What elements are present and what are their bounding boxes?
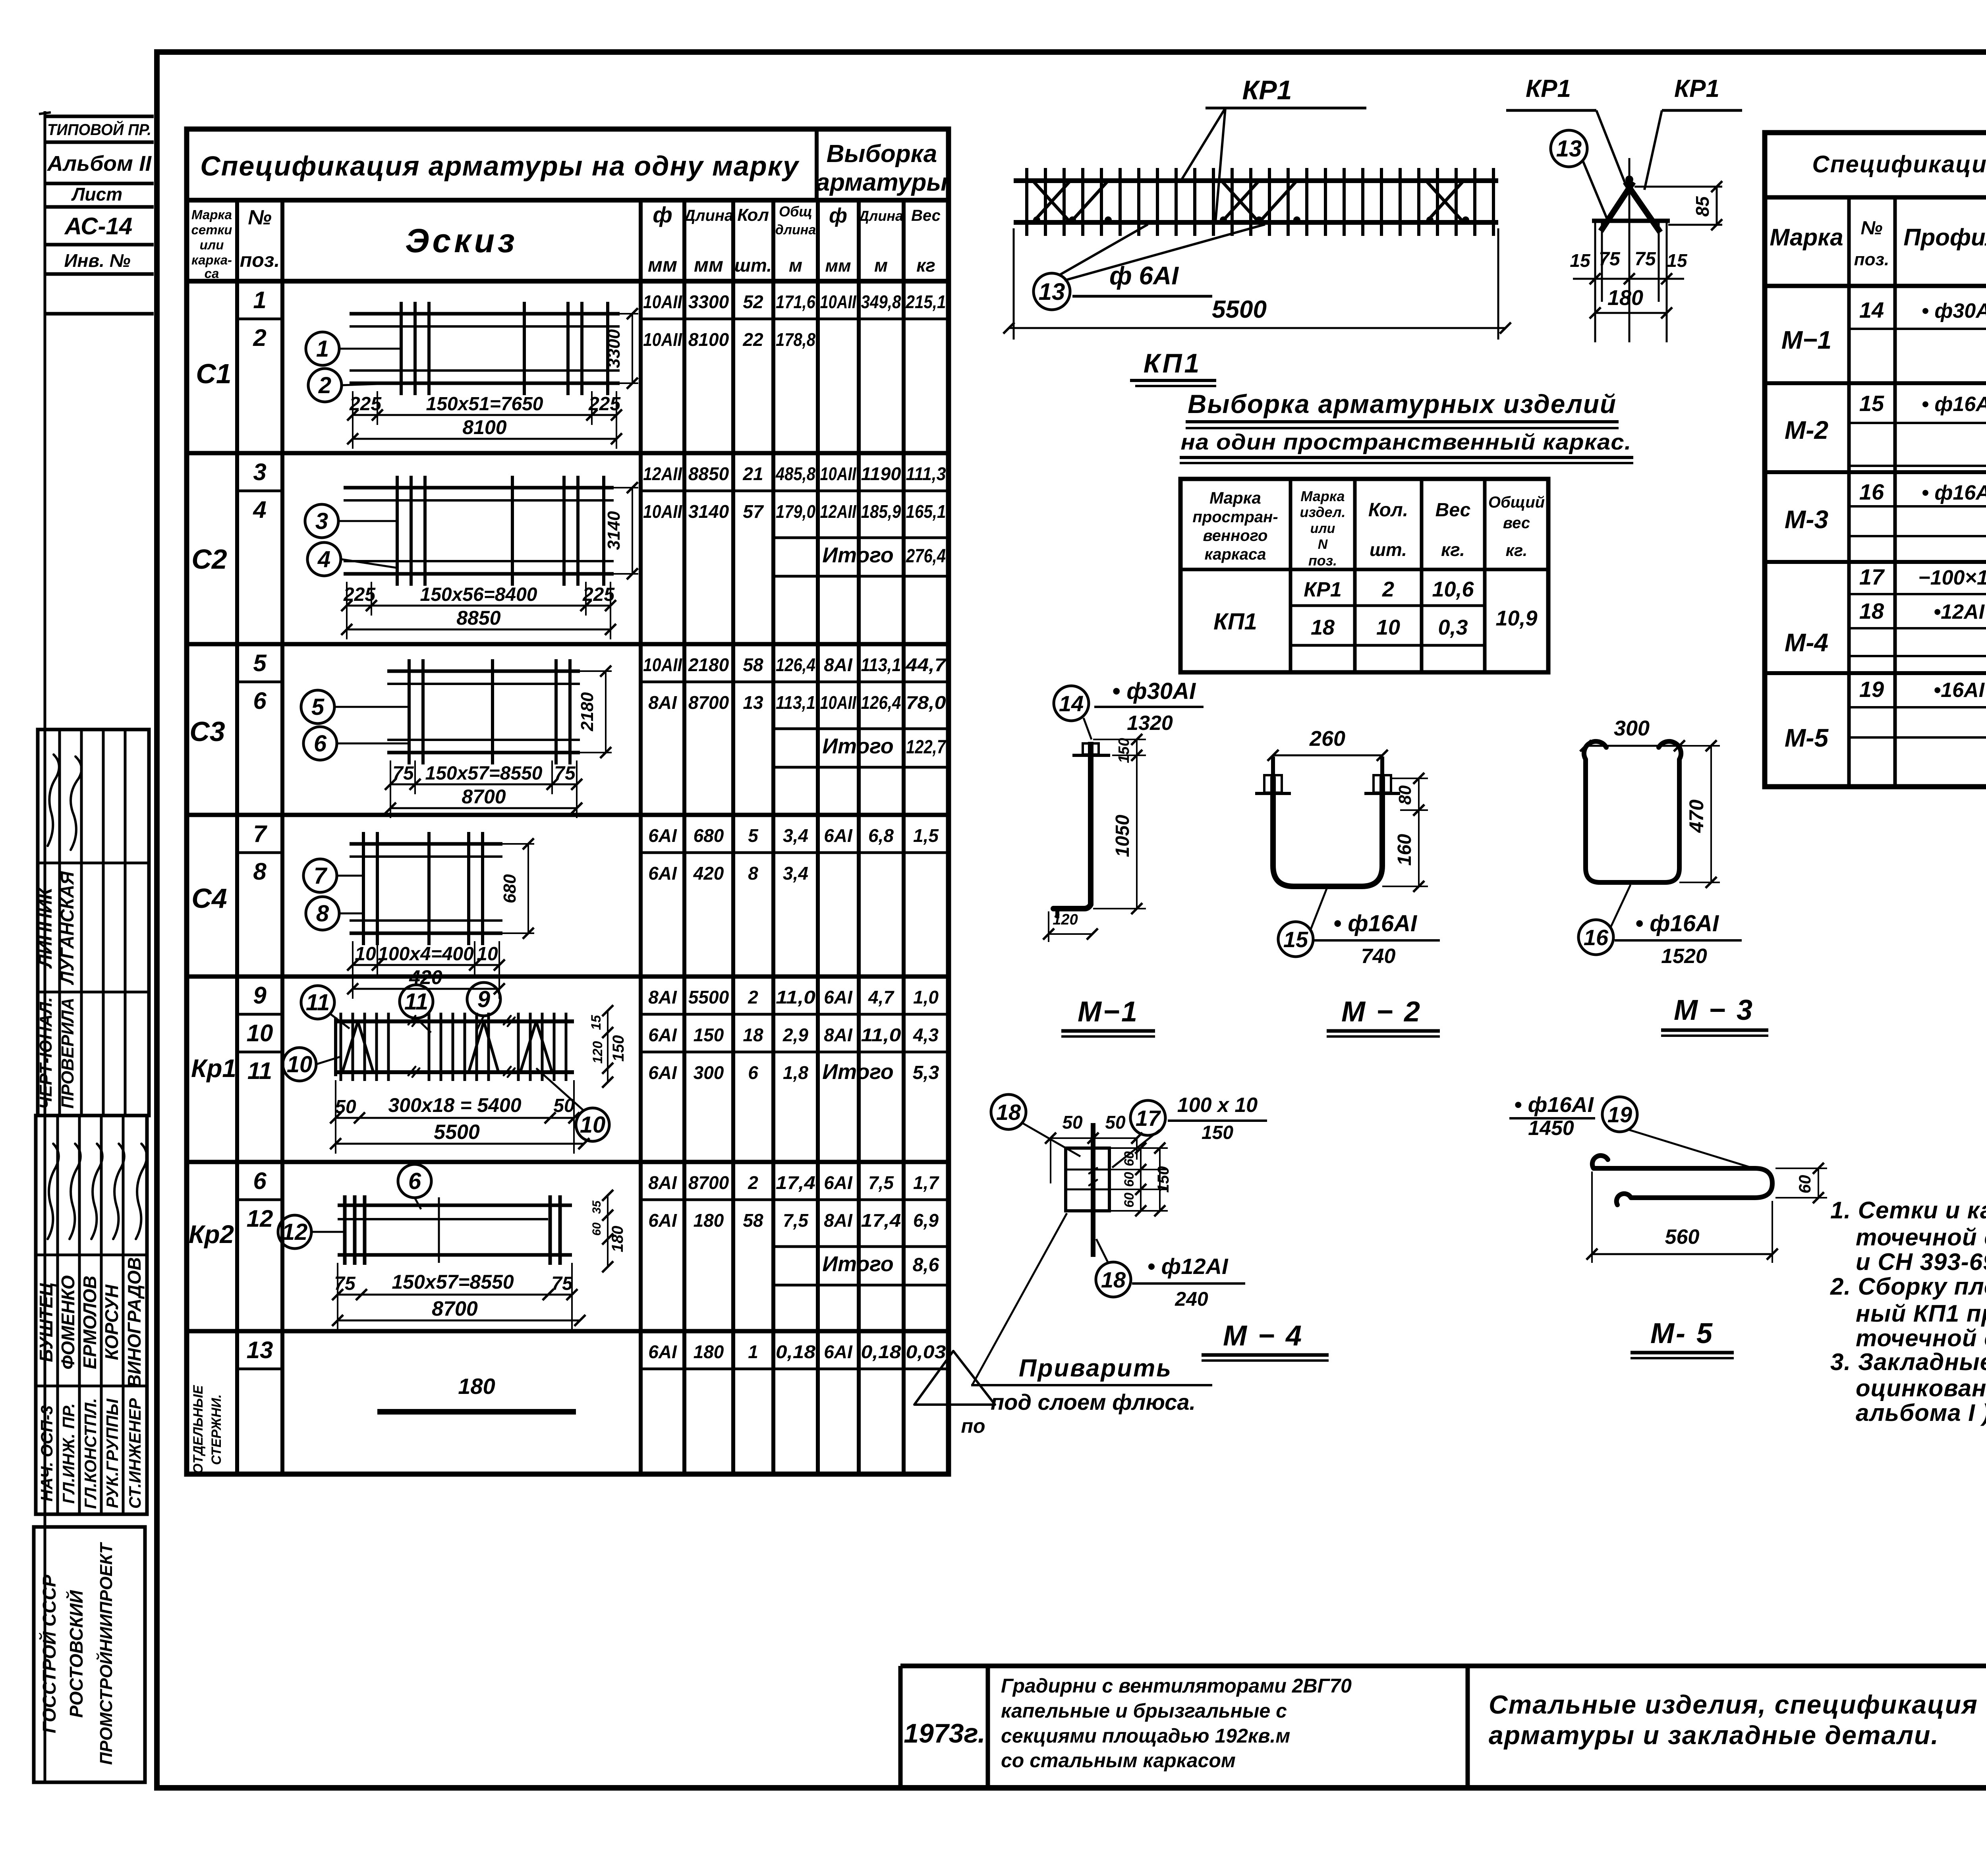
- svg-text:Марка: Марка: [1209, 488, 1261, 507]
- svg-text:Длина: Длина: [858, 208, 903, 224]
- svg-text:740: 740: [1361, 945, 1396, 968]
- svg-text:16: 16: [1859, 479, 1884, 504]
- svg-text:0,3: 0,3: [1438, 616, 1468, 639]
- svg-text:М−1: М−1: [1781, 326, 1831, 354]
- svg-text:Марка: Марка: [191, 207, 232, 222]
- svg-text:№: №: [1860, 218, 1882, 239]
- svg-text:7,5: 7,5: [783, 1210, 809, 1231]
- svg-text:2180: 2180: [578, 692, 597, 731]
- svg-text:50: 50: [553, 1095, 575, 1116]
- svg-text:150: 150: [1116, 738, 1132, 763]
- svg-text:ф: ф: [829, 204, 847, 227]
- svg-text:5: 5: [311, 694, 325, 720]
- svg-text:КОРСУН: КОРСУН: [101, 1284, 122, 1360]
- svg-text:150: 150: [694, 1025, 724, 1045]
- svg-text:180: 180: [1607, 286, 1643, 310]
- svg-text:8АI: 8АI: [824, 1025, 853, 1045]
- svg-text:8,6: 8,6: [913, 1255, 939, 1276]
- svg-text:6АI: 6АI: [648, 863, 677, 884]
- svg-text:•12АI: •12АI: [1934, 600, 1985, 623]
- svg-text:75: 75: [554, 763, 576, 784]
- svg-text:ф: ф: [653, 202, 672, 227]
- svg-text:16: 16: [1584, 925, 1609, 950]
- svg-text:150х56=8400: 150х56=8400: [420, 584, 537, 605]
- svg-text:Градирни с вентиляторами 2ВГ70: Градирни с вентиляторами 2ВГ70: [1001, 1675, 1352, 1697]
- svg-text:• ф30АI: • ф30АI: [1112, 678, 1196, 704]
- svg-text:5500: 5500: [1212, 296, 1267, 323]
- svg-text:8850: 8850: [456, 607, 500, 629]
- svg-text:поз.: поз.: [240, 249, 280, 271]
- svg-text:4,3: 4,3: [913, 1025, 939, 1045]
- svg-text:15: 15: [1667, 250, 1688, 271]
- svg-text:485,8: 485,8: [775, 463, 815, 484]
- svg-text:ПРОВЕРИЛА: ПРОВЕРИЛА: [58, 998, 77, 1108]
- svg-text:420: 420: [693, 863, 724, 884]
- svg-text:75: 75: [1599, 249, 1621, 270]
- svg-text:Выборка арматурных изделий: Выборка арматурных изделий: [1188, 389, 1617, 419]
- svg-text:8700: 8700: [462, 786, 506, 808]
- svg-text:180: 180: [694, 1210, 724, 1231]
- svg-text:6: 6: [253, 1168, 267, 1194]
- svg-text:7,5: 7,5: [868, 1172, 894, 1193]
- svg-text:1190: 1190: [861, 463, 901, 484]
- svg-text:10: 10: [287, 1052, 313, 1077]
- svg-text:6: 6: [748, 1062, 758, 1083]
- svg-text:на один пространственный ка: на один пространственный каркас.: [1181, 429, 1632, 454]
- svg-text:6АI: 6АI: [824, 825, 853, 846]
- svg-text:680: 680: [694, 825, 724, 846]
- svg-text:м: м: [789, 255, 802, 276]
- svg-text:М-2: М-2: [1785, 416, 1828, 444]
- svg-text:4,7: 4,7: [868, 987, 894, 1007]
- svg-text:М − 2: М − 2: [1341, 996, 1422, 1028]
- svg-text:КР1: КР1: [1304, 578, 1342, 601]
- svg-text:215,1: 215,1: [906, 291, 946, 312]
- svg-text:С1: С1: [196, 358, 231, 389]
- svg-text:ЕРМОЛОВ: ЕРМОЛОВ: [79, 1276, 100, 1369]
- svg-text:N: N: [1318, 537, 1328, 552]
- svg-text:КП1: КП1: [1144, 348, 1202, 378]
- svg-text:3300: 3300: [688, 291, 729, 312]
- svg-text:10АII: 10АII: [643, 501, 682, 522]
- svg-text:арматуры и закладные детал: арматуры и закладные детали.: [1489, 1720, 1939, 1750]
- svg-text:ГОССТРОЙ СССР: ГОССТРОЙ СССР: [39, 1575, 60, 1733]
- svg-text:простран-: простран-: [1192, 508, 1278, 526]
- svg-text:10АII: 10АII: [820, 291, 857, 312]
- svg-text:6: 6: [408, 1168, 421, 1194]
- svg-text:или: или: [200, 237, 224, 252]
- svg-text:0,18: 0,18: [861, 1341, 901, 1362]
- svg-text:60: 60: [1122, 1172, 1137, 1187]
- svg-text:5500: 5500: [434, 1121, 480, 1144]
- svg-text:−100×10: −100×10: [1918, 566, 1986, 589]
- svg-text:8700: 8700: [688, 1172, 729, 1193]
- svg-text:12АII: 12АII: [643, 463, 682, 484]
- svg-text:10АII: 10АII: [643, 654, 682, 675]
- svg-text:Марка: Марка: [1300, 488, 1345, 504]
- svg-text:СТЕРЖНИ.: СТЕРЖНИ.: [209, 1394, 224, 1465]
- svg-text:длина: длина: [775, 222, 816, 237]
- svg-text:капельные и брызгальные с: капельные и брызгальные с: [1001, 1700, 1287, 1722]
- svg-text:10: 10: [247, 1020, 273, 1046]
- svg-text:2: 2: [748, 987, 758, 1007]
- svg-text:Инв. №: Инв. №: [64, 250, 131, 271]
- svg-text:14: 14: [1059, 691, 1084, 716]
- svg-text:шт.: шт.: [1370, 539, 1407, 560]
- svg-text:300: 300: [1614, 716, 1650, 740]
- svg-text:165,1: 165,1: [906, 501, 946, 522]
- svg-text:8700: 8700: [688, 692, 729, 713]
- svg-text:1450: 1450: [1528, 1117, 1574, 1140]
- svg-text:С4: С4: [191, 883, 227, 914]
- svg-text:18: 18: [996, 1100, 1021, 1125]
- svg-text:Итого: Итого: [822, 1252, 894, 1276]
- svg-text:НАЧ. ОСП-3: НАЧ. ОСП-3: [37, 1405, 56, 1502]
- svg-text:Приварить: Приварить: [1019, 1355, 1172, 1382]
- svg-text:4: 4: [253, 496, 266, 523]
- svg-text:78,0: 78,0: [906, 692, 946, 713]
- svg-text:6АI: 6АI: [648, 825, 677, 846]
- svg-text:м: м: [874, 255, 888, 276]
- svg-text:2: 2: [1382, 577, 1394, 601]
- svg-text:5500: 5500: [688, 987, 729, 1007]
- svg-text:7: 7: [253, 820, 267, 847]
- svg-text:6АI: 6АI: [824, 987, 853, 1007]
- svg-text:100х4=400: 100х4=400: [378, 944, 474, 965]
- svg-text:171,6: 171,6: [776, 291, 815, 312]
- svg-text:М- 5: М- 5: [1650, 1318, 1714, 1349]
- svg-text:Выборка: Выборка: [827, 140, 937, 168]
- svg-text:издел.: издел.: [1300, 504, 1346, 520]
- svg-text:8АI: 8АI: [824, 654, 853, 675]
- svg-text:мм: мм: [648, 254, 677, 276]
- svg-text:8100: 8100: [462, 416, 506, 438]
- svg-text:М-5: М-5: [1785, 724, 1829, 752]
- svg-text:ГЛ.ИНЖ. ПР.: ГЛ.ИНЖ. ПР.: [59, 1403, 78, 1504]
- svg-text:5: 5: [748, 825, 759, 846]
- svg-text:6АI: 6АI: [824, 1172, 853, 1193]
- svg-text:сетки: сетки: [191, 222, 232, 237]
- svg-text:оцинкованы (см. пояснительную: оцинкованы (см. пояснительную записку: [1856, 1375, 1986, 1401]
- svg-text:12: 12: [247, 1205, 273, 1232]
- svg-text:№: №: [248, 206, 272, 229]
- svg-text:1973г.: 1973г.: [904, 1718, 985, 1749]
- svg-text:3300: 3300: [604, 329, 624, 368]
- svg-text:КП1: КП1: [1213, 609, 1257, 635]
- svg-text:113,1: 113,1: [861, 654, 901, 675]
- svg-text:150х57=8550: 150х57=8550: [425, 763, 543, 784]
- svg-text:КР1: КР1: [1242, 75, 1292, 105]
- svg-text:ОТДЕЛЬНЫЕ: ОТДЕЛЬНЫЕ: [191, 1385, 206, 1474]
- svg-text:6: 6: [314, 731, 327, 757]
- svg-text:арматуры: арматуры: [816, 169, 948, 196]
- svg-text:680: 680: [500, 874, 520, 903]
- svg-text:240: 240: [1175, 1288, 1208, 1310]
- svg-text:13: 13: [1039, 278, 1065, 305]
- svg-text:11,0: 11,0: [776, 987, 815, 1007]
- svg-text:ный КП1 производить с помо: ный КП1 производить с помощью контактной: [1856, 1300, 1986, 1327]
- svg-text:10АII: 10АII: [820, 463, 857, 484]
- svg-text:ФОМЕНКО: ФОМЕНКО: [58, 1275, 78, 1370]
- svg-text:и СН 393-69.: и СН 393-69.: [1856, 1249, 1986, 1275]
- svg-text:1: 1: [253, 287, 266, 313]
- svg-text:• ф16АI: • ф16АI: [1635, 911, 1719, 936]
- svg-text:12АII: 12АII: [820, 501, 857, 522]
- svg-text:1: 1: [316, 336, 329, 362]
- svg-text:8: 8: [748, 863, 758, 884]
- svg-text:• ф12АI: • ф12АI: [1148, 1254, 1229, 1279]
- svg-text:10: 10: [1376, 616, 1400, 639]
- svg-text:со стальным каркасом: со стальным каркасом: [1001, 1749, 1236, 1772]
- svg-text:4: 4: [317, 546, 330, 572]
- svg-text:11: 11: [247, 1058, 272, 1084]
- svg-text:секциями площадью 192кв.м: секциями площадью 192кв.м: [1001, 1725, 1290, 1747]
- svg-text:57: 57: [743, 501, 764, 522]
- svg-text:5,3: 5,3: [913, 1062, 939, 1083]
- svg-text:6,8: 6,8: [868, 825, 894, 846]
- svg-text:13: 13: [1556, 136, 1582, 162]
- svg-text:кг: кг: [916, 255, 935, 276]
- svg-text:ф 6АI: ф 6АI: [1109, 261, 1179, 290]
- svg-text:15: 15: [1283, 927, 1308, 952]
- svg-text:75: 75: [392, 763, 414, 784]
- svg-text:Итого: Итого: [822, 734, 894, 758]
- svg-text:35: 35: [590, 1200, 603, 1214]
- svg-text:Кол: Кол: [737, 205, 769, 225]
- svg-text:1050: 1050: [1112, 814, 1133, 857]
- svg-text:178,8: 178,8: [776, 329, 815, 350]
- svg-text:под слоем флюса.: под слоем флюса.: [991, 1390, 1196, 1415]
- svg-text:РУК.ГРУППЫ: РУК.ГРУППЫ: [103, 1398, 122, 1508]
- svg-text:поз.: поз.: [1854, 250, 1889, 269]
- svg-text:кг.: кг.: [1441, 539, 1465, 560]
- svg-text:С3: С3: [189, 716, 225, 747]
- svg-text:М − 4: М − 4: [1223, 1320, 1303, 1352]
- svg-text:точечной сварки в соответст: точечной сварки в соответствии с ГОСТ 10…: [1856, 1224, 1986, 1251]
- svg-text:13: 13: [247, 1337, 273, 1363]
- svg-text:9: 9: [253, 982, 267, 1009]
- svg-text:3. Закладные детали М-1÷М-5: 3. Закладные детали М-1÷М-5 должны быть: [1830, 1349, 1986, 1375]
- svg-text:2: 2: [748, 1172, 758, 1193]
- svg-text:58: 58: [743, 1210, 763, 1231]
- svg-text:8850: 8850: [688, 463, 729, 484]
- svg-text:• ф16АI: • ф16АI: [1922, 393, 1986, 416]
- svg-text:точечной сварки сварочными: точечной сварки сварочными клещами.: [1856, 1325, 1986, 1351]
- svg-text:• ф16АI: • ф16АI: [1922, 481, 1986, 504]
- svg-text:3140: 3140: [688, 501, 729, 522]
- svg-text:мм: мм: [825, 256, 851, 276]
- svg-text:75: 75: [551, 1273, 573, 1294]
- svg-text:1,7: 1,7: [913, 1172, 939, 1193]
- svg-text:179,0: 179,0: [776, 501, 815, 522]
- svg-text:6АI: 6АI: [824, 1341, 853, 1362]
- svg-text:по: по: [961, 1415, 985, 1437]
- svg-text:КР1: КР1: [1674, 75, 1719, 102]
- svg-text:• ф16АI: • ф16АI: [1514, 1093, 1594, 1117]
- svg-text:126,4: 126,4: [861, 692, 901, 713]
- svg-text:560: 560: [1665, 1226, 1700, 1249]
- svg-text:1520: 1520: [1661, 945, 1707, 968]
- svg-text:Эскиз: Эскиз: [405, 222, 518, 259]
- svg-text:8АI: 8АI: [824, 1210, 853, 1231]
- svg-text:ВИНОГРАДОВ: ВИНОГРАДОВ: [124, 1257, 145, 1388]
- svg-text:18: 18: [1101, 1267, 1126, 1292]
- svg-text:Общ: Общ: [779, 203, 812, 220]
- svg-text:альбома I ).: альбома I ).: [1856, 1399, 1986, 1426]
- svg-text:1320: 1320: [1127, 712, 1173, 735]
- svg-text:17: 17: [1136, 1106, 1161, 1131]
- svg-text:8АI: 8АI: [648, 987, 677, 1007]
- svg-text:6АI: 6АI: [648, 1062, 677, 1083]
- svg-text:9: 9: [477, 986, 490, 1012]
- svg-text:113,1: 113,1: [776, 692, 815, 713]
- svg-text:10АII: 10АII: [820, 692, 857, 713]
- svg-text:6,9: 6,9: [913, 1210, 939, 1231]
- svg-text:6АI: 6АI: [648, 1341, 677, 1362]
- svg-text:18: 18: [743, 1025, 763, 1045]
- svg-text:10АII: 10АII: [643, 329, 682, 350]
- svg-text:100 х 10: 100 х 10: [1177, 1094, 1258, 1117]
- svg-text:58: 58: [743, 654, 763, 675]
- svg-text:15: 15: [1859, 391, 1884, 416]
- svg-text:180: 180: [609, 1226, 626, 1253]
- svg-text:120: 120: [1053, 911, 1078, 928]
- svg-text:44,7: 44,7: [905, 654, 947, 675]
- svg-text:2: 2: [253, 324, 266, 351]
- svg-text:60: 60: [1122, 1193, 1137, 1208]
- svg-text:или: или: [1310, 521, 1335, 536]
- svg-text:120: 120: [590, 1041, 605, 1064]
- svg-text:11,0: 11,0: [861, 1025, 901, 1045]
- svg-text:111,3: 111,3: [906, 463, 946, 484]
- svg-text:кг.: кг.: [1506, 541, 1528, 560]
- svg-text:Профиль: Профиль: [1903, 224, 1986, 251]
- svg-text:М-4: М-4: [1785, 628, 1828, 657]
- svg-text:М-3: М-3: [1785, 505, 1828, 534]
- svg-text:2: 2: [318, 372, 331, 398]
- svg-text:0,18: 0,18: [776, 1341, 815, 1362]
- svg-text:М−1: М−1: [1078, 996, 1139, 1028]
- svg-text:150: 150: [610, 1035, 627, 1062]
- svg-text:10: 10: [477, 944, 498, 965]
- svg-text:50: 50: [1105, 1112, 1126, 1133]
- svg-text:13: 13: [743, 692, 763, 713]
- svg-text:15: 15: [1570, 250, 1591, 271]
- svg-text:10: 10: [355, 944, 376, 965]
- svg-text:6АI: 6АI: [648, 1025, 677, 1045]
- svg-text:ПРОМСТРОЙНИИПРОЕКТ: ПРОМСТРОЙНИИПРОЕКТ: [96, 1542, 116, 1765]
- svg-text:2. Сборку плоских каркасов: 2. Сборку плоских каркасов КР1 в простра…: [1830, 1273, 1986, 1300]
- svg-text:185,9: 185,9: [861, 501, 901, 522]
- svg-text:2180: 2180: [688, 654, 729, 675]
- svg-text:0,03: 0,03: [906, 1341, 946, 1362]
- svg-text:18: 18: [1859, 598, 1884, 623]
- svg-text:10,9: 10,9: [1495, 606, 1537, 630]
- svg-text:Лист: Лист: [71, 184, 122, 205]
- svg-text:КР1: КР1: [1526, 75, 1571, 102]
- svg-text:14: 14: [1859, 297, 1884, 322]
- svg-text:60: 60: [1795, 1175, 1814, 1194]
- svg-text:3,4: 3,4: [783, 863, 808, 884]
- svg-text:22: 22: [742, 329, 763, 350]
- svg-text:60: 60: [590, 1222, 603, 1236]
- svg-text:Кр2: Кр2: [189, 1220, 234, 1249]
- svg-text:8: 8: [253, 858, 267, 885]
- svg-text:300: 300: [694, 1062, 724, 1083]
- svg-text:3140: 3140: [604, 511, 624, 550]
- svg-text:80: 80: [1395, 785, 1415, 805]
- svg-text:карка-: карка-: [191, 253, 232, 267]
- svg-text:• ф16АI: • ф16АI: [1333, 911, 1418, 936]
- svg-text:Спецификация стали на одну: Спецификация стали на одну штуку каждой …: [1812, 151, 1986, 178]
- svg-text:Марка: Марка: [1770, 224, 1843, 251]
- svg-text:ЧЕРТ-ЮНАЛ.: ЧЕРТ-ЮНАЛ.: [36, 997, 56, 1109]
- svg-text:150: 150: [1202, 1122, 1233, 1143]
- svg-text:7: 7: [314, 863, 328, 889]
- svg-text:ЛИННИК: ЛИННИК: [35, 886, 56, 969]
- svg-text:19: 19: [1607, 1102, 1632, 1127]
- svg-text:3: 3: [315, 508, 328, 534]
- svg-text:3: 3: [253, 459, 266, 485]
- svg-text:17: 17: [1859, 564, 1885, 589]
- svg-text:12: 12: [282, 1219, 308, 1245]
- svg-text:са: са: [205, 266, 219, 281]
- svg-text:126,4: 126,4: [776, 654, 815, 675]
- svg-text:БУШТЕЦ: БУШТЕЦ: [36, 1283, 56, 1362]
- svg-text:85: 85: [1692, 196, 1713, 217]
- svg-text:3,4: 3,4: [783, 825, 808, 846]
- svg-text:РОСТОВСКИЙ: РОСТОВСКИЙ: [66, 1590, 87, 1718]
- svg-text:17,4: 17,4: [776, 1172, 815, 1193]
- svg-text:6: 6: [253, 687, 267, 714]
- svg-text:122,7: 122,7: [906, 737, 947, 758]
- svg-text:11: 11: [404, 989, 428, 1015]
- svg-text:Вес: Вес: [911, 207, 941, 224]
- svg-text:1. Сетки и каркасы изготов: 1. Сетки и каркасы изготовлять при помощ…: [1830, 1197, 1986, 1224]
- svg-text:50: 50: [335, 1096, 356, 1117]
- svg-text:52: 52: [743, 291, 763, 312]
- svg-text:21: 21: [742, 463, 763, 484]
- svg-text:Альбом II: Альбом II: [46, 152, 152, 176]
- svg-text:160: 160: [1394, 834, 1415, 866]
- svg-text:С2: С2: [191, 544, 227, 575]
- svg-text:300х18 = 5400: 300х18 = 5400: [388, 1094, 521, 1116]
- svg-text:11: 11: [306, 990, 330, 1015]
- svg-text:шт.: шт.: [734, 255, 772, 276]
- svg-text:Итого: Итого: [822, 1060, 894, 1084]
- svg-text:470: 470: [1685, 799, 1708, 833]
- svg-text:50: 50: [1062, 1112, 1083, 1133]
- svg-text:18: 18: [1311, 616, 1335, 639]
- svg-text:150х51=7650: 150х51=7650: [426, 394, 543, 415]
- svg-text:8: 8: [316, 901, 329, 926]
- svg-text:• ф30АI: • ф30АI: [1922, 299, 1986, 322]
- svg-text:180: 180: [458, 1374, 495, 1399]
- svg-text:ТИПОВОЙ ПР.: ТИПОВОЙ ПР.: [47, 120, 151, 139]
- svg-text:5: 5: [253, 650, 267, 676]
- svg-text:1,0: 1,0: [913, 987, 939, 1007]
- svg-text:349,8: 349,8: [861, 291, 901, 312]
- svg-text:вес: вес: [1503, 514, 1530, 532]
- svg-text:8АI: 8АI: [648, 1172, 677, 1193]
- svg-text:1,8: 1,8: [783, 1062, 808, 1083]
- svg-text:10: 10: [580, 1112, 606, 1138]
- svg-text:Итого: Итого: [822, 543, 894, 567]
- svg-text:АС-14: АС-14: [64, 213, 132, 239]
- svg-text:1: 1: [748, 1341, 758, 1362]
- svg-text:•16АI: •16АI: [1934, 679, 1985, 702]
- svg-text:Длина: Длина: [683, 207, 734, 224]
